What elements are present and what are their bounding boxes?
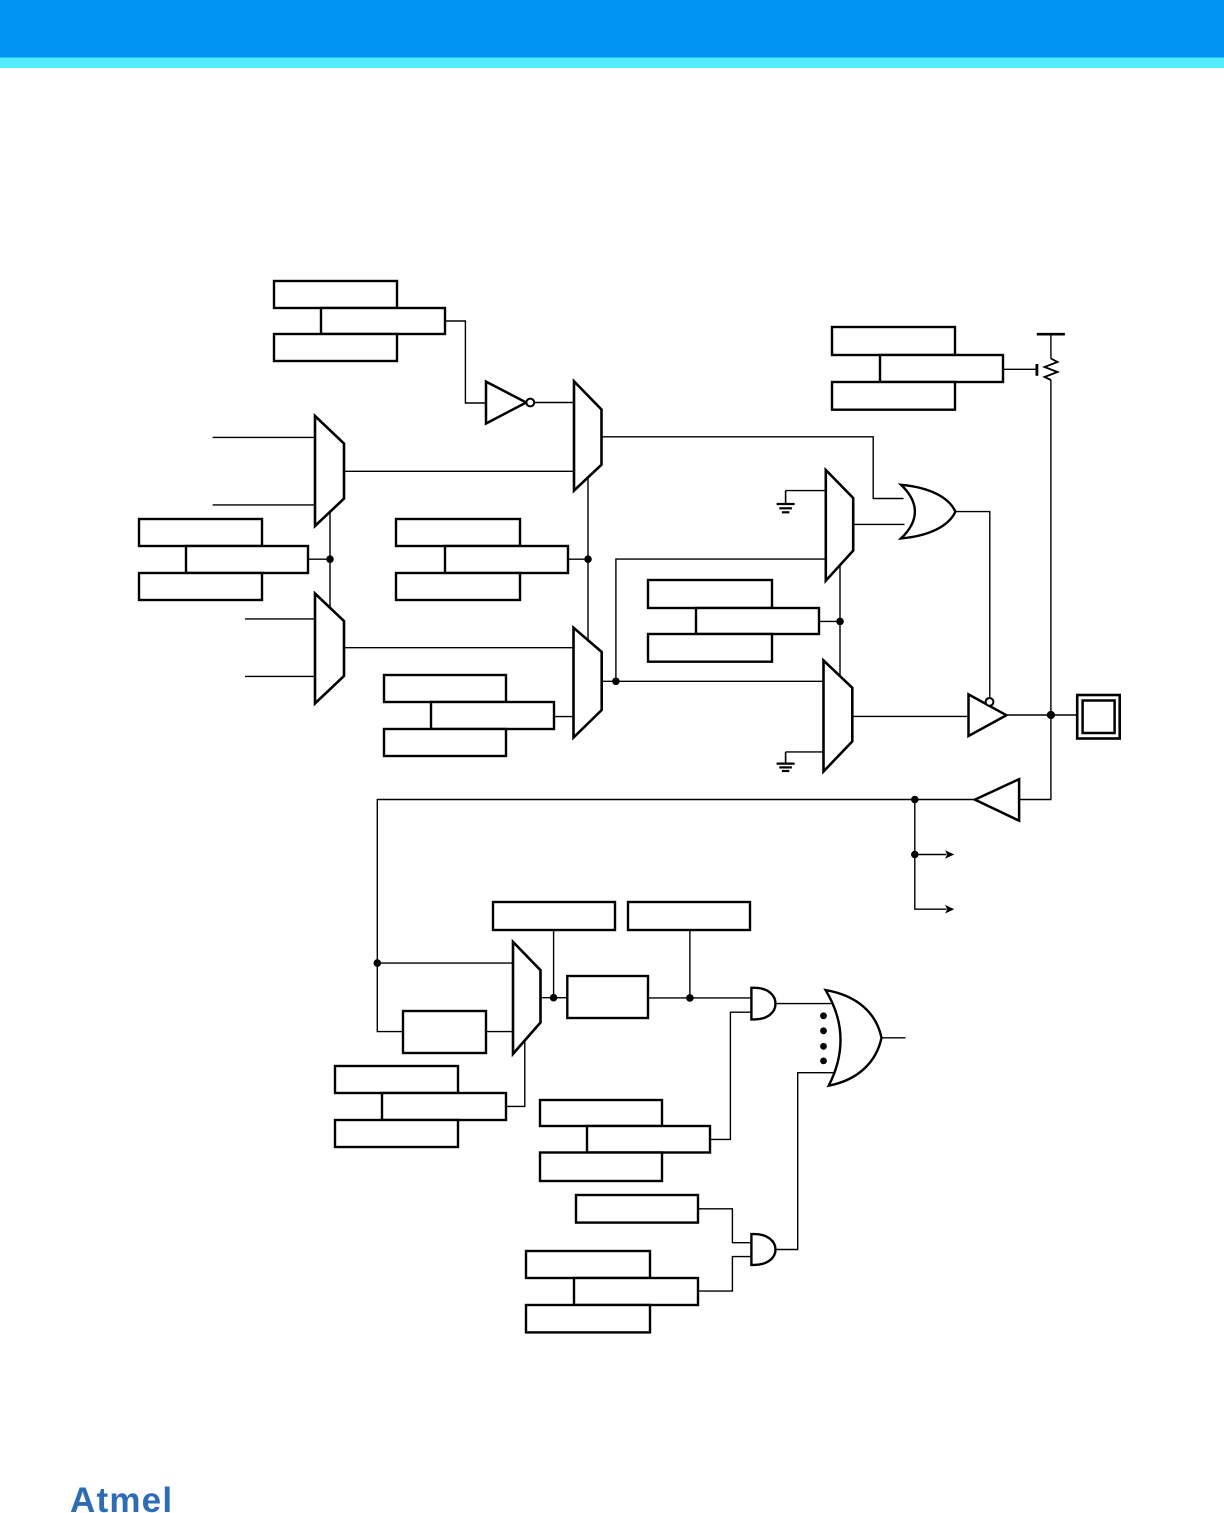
node J junction dot (686, 994, 694, 1002)
ground symbol GND1 (777, 491, 795, 513)
arrowhead 2 (945, 905, 954, 914)
wire register R5 to node A (308, 558, 330, 560)
wire mux M2 to mux M3 vertical (329, 511, 331, 608)
ellipsis dots for OR gate G3 inputs (820, 1012, 827, 1064)
register box R28 (bottom cluster upper) (526, 1251, 650, 1278)
tri-state buffer U2 (969, 694, 1007, 736)
mux M2 (315, 416, 344, 526)
register box R14 (right cluster middle) (696, 608, 819, 634)
OR gate G3 (many-input) (826, 990, 882, 1086)
wire mux M1 output to OR gate G1 (602, 437, 904, 499)
wire ground GND2 to mux M6 (786, 751, 824, 753)
register box R24 (mid-bottom cluster upper) (540, 1100, 662, 1126)
register box R2 (top-left cluster middle) (321, 308, 445, 334)
register box R23 (bottom-left cluster lower) (335, 1120, 458, 1147)
register box R30 (bottom cluster lower) (526, 1305, 650, 1332)
wire node F down to arrows (915, 800, 947, 910)
wire inverter U1 output to mux M1 (534, 402, 574, 404)
register box R8 (mid cluster middle) (445, 546, 568, 573)
node H junction dot on long run (374, 959, 382, 967)
wire mux M2 input 2 (213, 504, 315, 506)
wire register R22 to mux M7 select (507, 1041, 525, 1107)
page header band (0, 0, 1224, 58)
wire mux M3 input 2 (245, 675, 315, 677)
wire pull-up resistor to pad net and input buffer (1019, 380, 1051, 800)
wire register R11 to mux M4 (554, 716, 574, 718)
mux M4 (574, 628, 602, 738)
pad P1 (double square) (1077, 695, 1120, 739)
register box R26 (mid-bottom cluster lower) (540, 1153, 662, 1182)
wire clock box B1 to mux M7 input 2 (486, 1031, 513, 1033)
latch box B2 (567, 976, 648, 1018)
wire OR gate G3 output (882, 1037, 906, 1039)
wire register R27 to AND gate G4 input 1 (698, 1209, 751, 1243)
register box R7 (mid cluster upper) (396, 519, 520, 546)
register box R25 (mid-bottom cluster middle) (587, 1126, 710, 1153)
arrowhead 1 (945, 850, 954, 859)
svg-text:Atmel: Atmel (70, 1481, 173, 1513)
wire mux M3 output to mux M4 (344, 647, 574, 649)
register box R27 (single, above bottom cluster) (576, 1195, 698, 1223)
mux M6 (824, 660, 853, 771)
header accent strip (0, 58, 1224, 69)
register box R3 (top-left cluster lower) (274, 334, 397, 361)
wire AND gate G2 output to OR gate G3 (776, 1003, 832, 1005)
mux M7 (513, 942, 541, 1054)
wire mux M5 output to OR gate G1 (853, 523, 904, 525)
wire register R14 to node D (819, 620, 840, 622)
wire register R25 to AND gate G2 input 2 (710, 1012, 751, 1139)
wire ground GND1 to mux M5 (786, 490, 826, 492)
node B junction dot (584, 555, 592, 563)
wire from R2 to inverter U1 (445, 321, 486, 403)
register box R6 (left cluster lower) (139, 573, 262, 600)
pull-up resistor RP (1045, 334, 1058, 380)
register box R13 (right cluster upper) (648, 580, 772, 608)
wire input buffer U3 output long run to mux M7 (377, 800, 975, 1032)
register box R19 (above mux M7) (493, 902, 615, 930)
register box R9 (mid cluster lower) (396, 573, 520, 600)
node G junction dot (911, 851, 919, 859)
register box R21 (bottom-left cluster upper) (335, 1066, 458, 1093)
wire OR gate G1 output to tri-state buffer U2 enable (955, 512, 989, 698)
node E junction dot (1047, 711, 1055, 719)
register box R15 (right cluster lower) (648, 634, 772, 662)
mux M3 (315, 594, 344, 704)
register box R11 (lower-left cluster middle) (431, 702, 554, 729)
wire latch box B2 to AND gate G2 (648, 997, 751, 999)
register box R16 (top-right cluster upper) (832, 327, 955, 355)
wire mux M2 input 1 (213, 436, 315, 438)
register box R17 (top-right cluster middle) (880, 355, 1003, 382)
wire mux M4 output to mux M6 (602, 680, 824, 682)
register box R12 (lower-left cluster lower) (384, 729, 506, 756)
register box R22 (bottom-left cluster middle) (382, 1093, 506, 1120)
node A junction dot (326, 555, 334, 563)
inverter U1 (486, 382, 534, 424)
OR gate G1 (901, 485, 955, 539)
wire register R19 down to node I (553, 930, 555, 998)
wire mux M6 output to tri-state buffer U2 (852, 715, 967, 717)
wire mux M3 input 1 (245, 618, 315, 620)
mux M5 (826, 470, 853, 581)
node I junction dot (550, 994, 558, 1002)
wire register R8 to node B (568, 558, 588, 560)
wire node G to arrow 1 (915, 854, 947, 856)
wire mux M7 output to latch box (541, 997, 568, 999)
wire AND gate G4 output to OR gate G3 (776, 1073, 843, 1250)
node D junction dot (836, 618, 844, 626)
wire node H to mux M7 input 1 (377, 962, 513, 964)
register box R5 (left cluster middle) (186, 546, 308, 573)
clock box B1 (left of mux M7) (403, 1011, 486, 1053)
register box R20 (right of R19) (628, 902, 750, 930)
node C junction dot (612, 678, 620, 686)
wire mux M2 output to mux M1 (344, 470, 574, 472)
wire tri-state buffer U2 output to pad (1006, 714, 1077, 716)
register box R29 (bottom cluster middle) (574, 1278, 698, 1305)
wire node C up to mux M5 (616, 559, 826, 681)
AND gate G2 (751, 988, 775, 1020)
pull-up control tick (1036, 364, 1039, 376)
register box R10 (lower-left cluster upper) (384, 675, 506, 702)
AND gate G4 (751, 1234, 775, 1265)
wire register R29 to AND gate G4 input 2 (698, 1257, 751, 1292)
node F junction dot (911, 796, 919, 804)
register box R1 (top-left cluster upper) (274, 281, 397, 308)
wire register R20 down to node J (689, 930, 691, 998)
wire register R17 to pull-up control tick (1003, 368, 1036, 370)
mux M1 (574, 381, 602, 490)
register box R4 (left cluster upper) (139, 519, 262, 546)
input buffer U3 (975, 779, 1019, 821)
wire mux M5 to mux M6 vertical (839, 566, 841, 676)
power rail Vcc (1037, 333, 1065, 336)
wire mux M1 to mux M4 vertical (587, 478, 589, 644)
register box R18 (top-right cluster lower) (832, 382, 955, 410)
ground symbol GND2 (777, 752, 795, 771)
